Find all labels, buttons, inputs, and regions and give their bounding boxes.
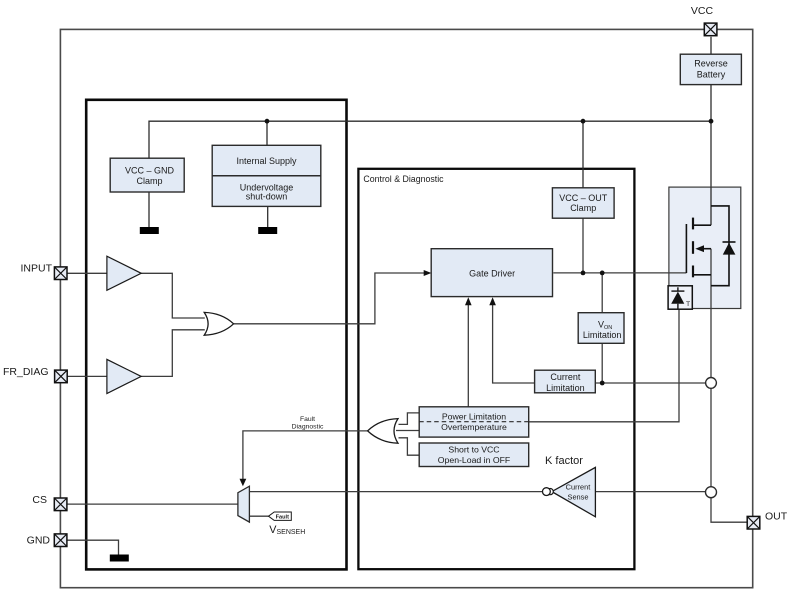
svg-text:VCC – OUT: VCC – OUT: [559, 193, 608, 203]
svg-text:FR_DIAG: FR_DIAG: [3, 366, 49, 378]
svg-text:OUT: OUT: [765, 511, 788, 523]
svg-text:VCC – GND: VCC – GND: [125, 166, 175, 176]
svg-text:Current: Current: [566, 483, 591, 492]
svg-text:K factor: K factor: [545, 455, 583, 467]
svg-text:GND: GND: [27, 535, 51, 547]
svg-text:Gate Driver: Gate Driver: [469, 269, 515, 279]
svg-text:Short to VCC: Short to VCC: [448, 445, 499, 455]
svg-text:Reverse: Reverse: [694, 59, 728, 69]
svg-text:VSENSEH: VSENSEH: [269, 524, 305, 536]
svg-text:Diagnostic: Diagnostic: [292, 424, 324, 431]
svg-text:T: T: [686, 301, 690, 308]
svg-text:Current: Current: [550, 372, 581, 382]
svg-text:Clamp: Clamp: [570, 203, 596, 213]
svg-text:VCC: VCC: [691, 5, 714, 17]
svg-text:Open-Load in OFF: Open-Load in OFF: [438, 455, 510, 465]
svg-text:shut-down: shut-down: [246, 192, 288, 202]
svg-text:Power Limitation: Power Limitation: [442, 411, 506, 421]
svg-text:Battery: Battery: [697, 69, 726, 79]
svg-text:Fault: Fault: [276, 514, 289, 520]
svg-text:INPUT: INPUT: [21, 263, 53, 275]
svg-text:Limitation: Limitation: [546, 383, 585, 393]
svg-text:CS: CS: [32, 494, 47, 506]
svg-text:Sense: Sense: [568, 493, 589, 502]
svg-text:Fault: Fault: [300, 416, 315, 423]
svg-text:Clamp: Clamp: [136, 176, 162, 186]
svg-text:Control & Diagnostic: Control & Diagnostic: [363, 174, 444, 184]
svg-text:Limitation: Limitation: [583, 330, 622, 340]
svg-text:Overtemperature: Overtemperature: [441, 422, 507, 432]
svg-text:Internal Supply: Internal Supply: [236, 156, 297, 166]
